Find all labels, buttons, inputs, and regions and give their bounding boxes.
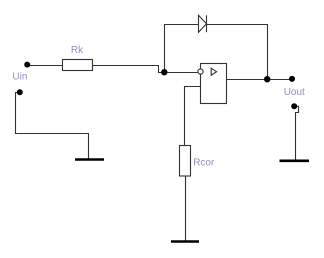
svg-text:Uin: Uin	[12, 72, 27, 83]
svg-text:Uout: Uout	[284, 87, 305, 98]
svg-text:Rcor: Rcor	[193, 157, 215, 168]
svg-text:Rk: Rk	[71, 45, 84, 56]
